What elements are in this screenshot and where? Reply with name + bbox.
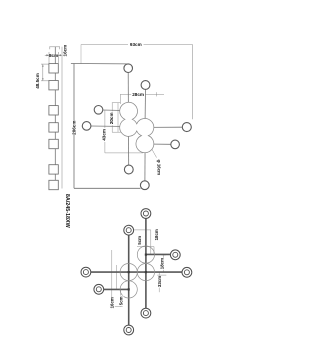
svg-text:8cm: 8cm bbox=[49, 53, 58, 58]
svg-text:18cm: 18cm bbox=[160, 258, 165, 269]
svg-text:φ 16cm: φ 16cm bbox=[157, 160, 162, 176]
svg-text:5cm: 5cm bbox=[118, 296, 123, 305]
svg-text:16cm: 16cm bbox=[110, 297, 115, 308]
svg-text:93cm: 93cm bbox=[130, 42, 142, 47]
svg-text:20cm: 20cm bbox=[109, 112, 114, 124]
svg-text:48.5cm: 48.5cm bbox=[35, 73, 40, 89]
svg-text:206cm: 206cm bbox=[71, 121, 76, 135]
svg-text:43cm: 43cm bbox=[102, 129, 107, 141]
svg-text:8A/245-18XW: 8A/245-18XW bbox=[64, 194, 70, 229]
svg-text:18cm: 18cm bbox=[154, 229, 159, 240]
svg-text:33cm: 33cm bbox=[157, 276, 162, 287]
svg-text:5cm: 5cm bbox=[137, 236, 142, 245]
svg-text:28cm: 28cm bbox=[132, 92, 144, 97]
svg-text:16cm: 16cm bbox=[62, 45, 67, 57]
